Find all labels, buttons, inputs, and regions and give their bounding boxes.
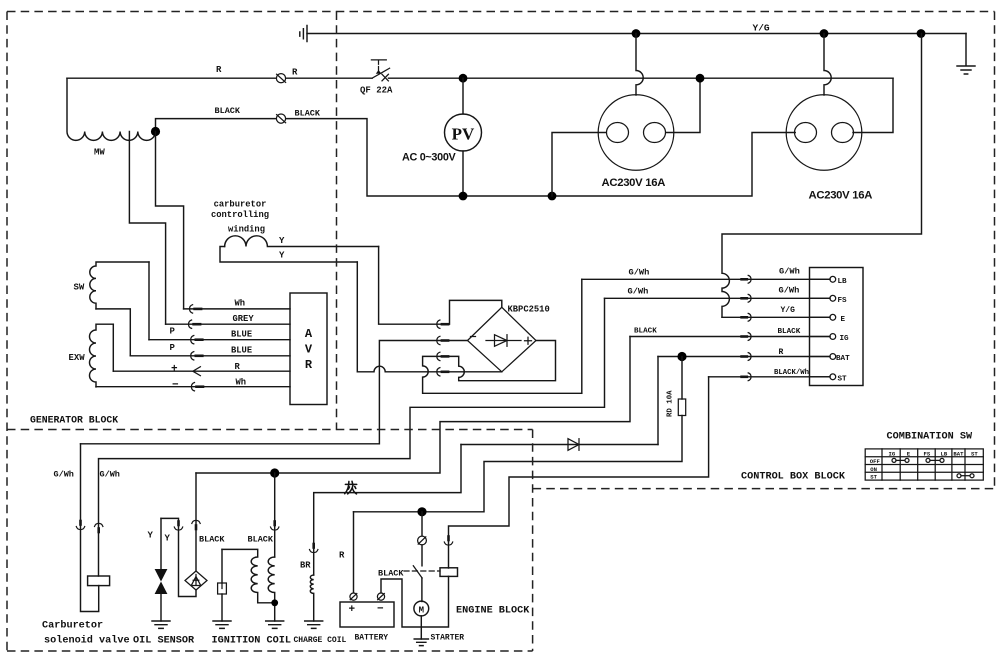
- wire BLACK drop to ignition: [196, 337, 630, 474]
- wire PV bottom: [462, 151, 464, 196]
- oil sensor Y loop: [161, 518, 196, 596]
- wire R drop to diode line: [657, 357, 659, 445]
- wire BLACK/Wh drop to relay: [449, 377, 709, 568]
- wire winding lower Y: [220, 247, 357, 263]
- svg-text:MW: MW: [94, 148, 105, 158]
- svg-text:ST: ST: [838, 375, 848, 383]
- terminal LB: [810, 278, 830, 280]
- wire EXW top to R line: [112, 324, 114, 371]
- wire SW bottom to BLUE2: [96, 309, 130, 356]
- svg-text:BLACK: BLACK: [378, 569, 404, 579]
- fuse RD 10A: [681, 357, 683, 400]
- svg-text:BLACK: BLACK: [248, 535, 274, 545]
- ground (top center, rotated earth): [300, 26, 307, 42]
- node junction R/PV: [459, 74, 468, 83]
- control box terminal block: [810, 268, 864, 386]
- mechanical link dashes: [404, 570, 440, 572]
- svg-text:+: +: [171, 364, 178, 376]
- starter switch blade: [413, 566, 422, 578]
- wire BLACK vertical to oil sensor: [195, 473, 197, 571]
- wire Wh1 into AVR: [184, 308, 290, 310]
- svg-text:GREY: GREY: [233, 314, 255, 324]
- connector on ignition wire: [271, 522, 279, 531]
- arrow on BLACK/Wh: [742, 373, 751, 381]
- svg-text:CHARGE COIL: CHARGE COIL: [294, 636, 347, 645]
- terminal BAT: [810, 356, 830, 358]
- svg-text:+: +: [349, 604, 356, 616]
- wire socket1 right hole to R: [666, 78, 700, 132]
- wire BLACK to IG: [630, 336, 830, 338]
- node junction ignition coil ground: [271, 599, 278, 606]
- svg-text:BLUE: BLUE: [231, 346, 252, 356]
- carburetor controlling winding coil: [225, 236, 379, 247]
- generator winding MW: [67, 78, 155, 140]
- battery terminal minus: [377, 593, 384, 600]
- connector on R line (arrow): [193, 367, 201, 376]
- wire socket2 top with hop: [824, 34, 831, 96]
- wire starter switch drop: [421, 512, 423, 536]
- wire G/Wh2 riser and run to solenoid: [99, 298, 605, 576]
- wire R to BAT: [658, 356, 830, 358]
- svg-text:V: V: [305, 343, 313, 357]
- connector on bridge bottom wire: [437, 368, 448, 376]
- arrow on BLACK: [742, 333, 751, 341]
- svg-text:IGNITION COIL: IGNITION COIL: [212, 636, 291, 647]
- connector on BR wire: [310, 544, 318, 553]
- ground (starter): [414, 639, 428, 646]
- node junction MW right: [151, 127, 160, 136]
- svg-text:AC 0~300V: AC 0~300V: [402, 152, 457, 164]
- wire bridge plus loop: [423, 341, 582, 394]
- border generator/control divider dashed: [336, 12, 338, 430]
- svg-text:BLACK: BLACK: [634, 328, 657, 336]
- node junction battery/starter: [417, 507, 426, 516]
- wire Y2 to bridge bottom with hop: [357, 262, 502, 372]
- connector on BLACK wire: [276, 114, 285, 123]
- socket AC230V 16A (right): [786, 95, 862, 171]
- connector on BLUE1: [191, 336, 203, 344]
- svg-text:G/Wh: G/Wh: [628, 287, 649, 297]
- oil sensor double diode: [155, 569, 168, 582]
- svg-text:G/Wh: G/Wh: [629, 268, 650, 278]
- svg-text:AC230V 16A: AC230V 16A: [602, 177, 666, 189]
- svg-text:FS: FS: [924, 450, 931, 457]
- svg-text:BLACK/Wh: BLACK/Wh: [774, 369, 809, 377]
- svg-text:A: A: [305, 327, 313, 341]
- table contacts OFF row: [892, 458, 944, 462]
- node junction R/fuse: [677, 352, 686, 361]
- breaker QF 22A: [371, 60, 389, 81]
- svg-text:BAT: BAT: [836, 355, 850, 363]
- svg-text:SW: SW: [74, 283, 85, 293]
- voltmeter PV: [445, 114, 482, 151]
- label grey (Chinese): [345, 481, 357, 494]
- wire PV top: [462, 78, 464, 114]
- border generator/engine divider dashed: [7, 429, 533, 431]
- svg-text:ENGINE BLOCK: ENGINE BLOCK: [456, 606, 530, 617]
- starter relay coil: [440, 568, 458, 577]
- svg-text:M: M: [419, 606, 424, 616]
- connector on BLUE2: [191, 352, 203, 360]
- wire socket2 right hole to R end: [853, 78, 893, 132]
- svg-text:RD 10A: RD 10A: [667, 390, 675, 417]
- svg-text:R: R: [235, 362, 241, 372]
- wire Y/G drop to control box E: [722, 34, 922, 318]
- svg-text:STARTER: STARTER: [431, 634, 465, 643]
- svg-text:Y/G: Y/G: [781, 306, 796, 315]
- wire battery plus riser: [353, 512, 355, 593]
- svg-text:Wh: Wh: [235, 299, 246, 309]
- node junction Y/G socket2: [820, 29, 829, 38]
- svg-text:QF 22A: QF 22A: [360, 86, 393, 96]
- terminal ST: [810, 376, 830, 378]
- arrow on G/Wh2: [742, 294, 751, 302]
- connector on Wh2: [191, 383, 203, 391]
- svg-text:PV: PV: [452, 125, 475, 144]
- svg-text:BLACK: BLACK: [778, 328, 801, 336]
- svg-text:BLACK: BLACK: [215, 106, 241, 116]
- node junction bus/socket1 left: [548, 192, 557, 201]
- ground (charge coil): [305, 621, 323, 628]
- svg-text:COMBINATION SW: COMBINATION SW: [887, 432, 973, 443]
- svg-text:R: R: [305, 358, 313, 372]
- svg-text:Y: Y: [148, 531, 154, 541]
- wire MW tap to GREY: [129, 132, 165, 325]
- oil pressure switch symbol: [185, 571, 207, 590]
- wire solenoid left leg: [81, 444, 99, 612]
- wire EXW bottom to Wh2: [96, 386, 290, 388]
- wire G/Wh2 to FS: [605, 297, 831, 299]
- node junction Y/G right drop: [917, 29, 926, 38]
- wire BLACK/Wh to ST: [709, 376, 830, 378]
- wire MW junction to Wh: [156, 132, 184, 309]
- svg-text:Y/G: Y/G: [753, 23, 770, 34]
- svg-text:Y: Y: [279, 251, 285, 261]
- connector pair on solenoid wires: [76, 521, 103, 532]
- wire R top: [67, 77, 893, 79]
- ground (oil sensor): [152, 621, 170, 628]
- svg-text:GENERATOR BLOCK: GENERATOR BLOCK: [30, 415, 118, 426]
- svg-text:LB: LB: [838, 278, 848, 286]
- wire bridge minus line to solenoid (left run): [81, 341, 468, 444]
- svg-text:BLACK: BLACK: [199, 535, 225, 545]
- svg-text:G/Wh: G/Wh: [100, 470, 120, 480]
- border engine right dashed: [532, 430, 534, 652]
- wire Y/G bus: [307, 33, 966, 35]
- wire Y/G to E: [722, 316, 830, 318]
- wire socket1 top with hop: [636, 34, 643, 96]
- svg-text:G/Wh: G/Wh: [54, 470, 74, 480]
- svg-text:ST: ST: [870, 474, 877, 481]
- arrow on G/Wh1: [742, 275, 751, 283]
- svg-text:G/Wh: G/Wh: [779, 267, 800, 277]
- ground (top right): [957, 34, 975, 75]
- wire charge coil run: [314, 445, 461, 576]
- svg-text:FS: FS: [838, 297, 848, 305]
- battery terminal plus: [350, 593, 357, 600]
- svg-text:ON: ON: [870, 466, 877, 473]
- generator winding SW: [90, 262, 149, 309]
- carburetor solenoid valve coil: [88, 576, 110, 586]
- svg-text:R: R: [339, 551, 345, 561]
- svg-text:carburetor: carburetor: [214, 200, 267, 210]
- svg-text:G/Wh: G/Wh: [779, 286, 800, 296]
- wire BLUE1 into AVR: [149, 339, 290, 341]
- generator winding EXW: [90, 324, 114, 387]
- wire Y1 to bridge top: [379, 247, 502, 325]
- svg-text:winding: winding: [228, 225, 265, 235]
- ground (ignition coil): [266, 621, 284, 628]
- AVR box U1: [290, 293, 327, 405]
- connector on bridge top wire: [437, 320, 448, 328]
- svg-text:OFF: OFF: [870, 458, 881, 465]
- svg-text:BLUE: BLUE: [231, 330, 252, 340]
- svg-text:CONTROL BOX BLOCK: CONTROL BOX BLOCK: [741, 472, 846, 483]
- border engine bottom dashed: [7, 650, 533, 652]
- svg-text:Wh: Wh: [236, 378, 247, 388]
- svg-text:LB: LB: [941, 450, 948, 457]
- table contacts ST row: [957, 474, 974, 478]
- wire BLUE2 into AVR: [130, 355, 290, 357]
- wire G/Wh1 to LB: [582, 278, 830, 280]
- svg-text:IG: IG: [840, 335, 850, 343]
- arrow on R: [742, 353, 751, 361]
- svg-text:−: −: [172, 380, 179, 392]
- wire relay to battery loop: [381, 576, 449, 627]
- connector on relay wire: [444, 537, 452, 546]
- svg-text:KBPC2510: KBPC2510: [508, 305, 550, 315]
- connector on oil sensor wire: [192, 520, 200, 529]
- wire GREY into AVR: [166, 323, 290, 325]
- border left dashed: [6, 12, 8, 652]
- svg-text:Carburetor: Carburetor: [42, 620, 103, 632]
- svg-text:BAT: BAT: [953, 450, 964, 457]
- wire SW top to BLUE1: [148, 262, 150, 340]
- starter motor M: [414, 601, 429, 616]
- connector on Wh1: [190, 305, 202, 313]
- svg-text:R: R: [779, 348, 784, 357]
- svg-text:controlling: controlling: [211, 210, 269, 220]
- svg-text:AC230V 16A: AC230V 16A: [809, 190, 873, 202]
- svg-text:BATTERY: BATTERY: [355, 634, 389, 643]
- connector on minus line: [437, 336, 448, 344]
- svg-text:solenoid valve: solenoid valve: [44, 635, 130, 647]
- node junction ignition tap: [270, 468, 279, 477]
- svg-text:P: P: [170, 327, 176, 337]
- svg-text:Y: Y: [279, 236, 285, 246]
- svg-text:EXW: EXW: [69, 353, 86, 363]
- border control box right dashed: [994, 12, 996, 489]
- connector circle on switch wire: [418, 536, 427, 545]
- svg-text:E: E: [841, 316, 846, 324]
- svg-text:R: R: [216, 65, 222, 75]
- node junction bus/PV bottom: [459, 192, 468, 201]
- ground (spark plug): [213, 621, 231, 628]
- charge coil winding: [310, 575, 313, 621]
- combination switch table: [865, 449, 983, 480]
- svg-text:R: R: [292, 68, 298, 78]
- terminal FS: [810, 297, 830, 299]
- svg-text:OIL SENSOR: OIL SENSOR: [133, 636, 195, 647]
- node junction R/socket1: [696, 74, 705, 83]
- diode D1 on charge line: [461, 444, 658, 446]
- terminal IG: [810, 336, 830, 338]
- wire R into AVR: [113, 370, 290, 372]
- svg-text:ST: ST: [971, 450, 978, 457]
- border control box bottom dashed: [533, 488, 995, 490]
- wire BLACK upper: [156, 119, 796, 196]
- wire socket1 left hole: [552, 133, 606, 197]
- socket AC230V 16A (left): [598, 95, 674, 171]
- connector on Y wire: [174, 522, 182, 531]
- bridge rectifier KBPC2510: [468, 307, 537, 372]
- svg-text:P: P: [170, 343, 176, 353]
- arrow on Y/G: [742, 313, 751, 321]
- connector on GREY: [189, 320, 201, 328]
- battery BT1: [340, 602, 394, 627]
- svg-text:−: −: [377, 604, 384, 616]
- svg-text:Y: Y: [165, 534, 171, 544]
- connector on plus stub: [437, 352, 448, 360]
- svg-text:BLACK: BLACK: [295, 109, 321, 119]
- border outer top dashed: [7, 11, 995, 13]
- wire ignition coil drop: [274, 473, 276, 557]
- svg-text:BR: BR: [300, 561, 311, 571]
- connector on R wire: [276, 74, 285, 83]
- node junction Y/G socket1: [632, 29, 641, 38]
- wire G/Wh1 riser: [581, 279, 583, 393]
- terminal E: [810, 316, 830, 318]
- ignition coil windings: [222, 549, 275, 602]
- svg-text:IG: IG: [889, 450, 896, 457]
- spark plug: [221, 549, 223, 583]
